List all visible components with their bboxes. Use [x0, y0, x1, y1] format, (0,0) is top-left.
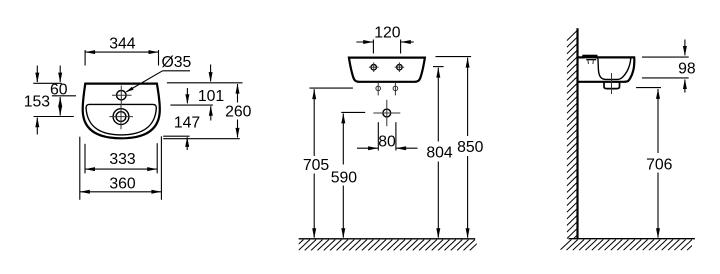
svg-text:153: 153 — [24, 94, 51, 111]
svg-text:344: 344 — [109, 35, 136, 52]
svg-text:120: 120 — [374, 24, 401, 41]
svg-text:850: 850 — [457, 139, 484, 156]
svg-text:590: 590 — [331, 170, 358, 187]
svg-text:98: 98 — [678, 61, 696, 78]
svg-text:101: 101 — [198, 88, 225, 105]
svg-text:80: 80 — [378, 134, 396, 151]
svg-text:706: 706 — [646, 157, 673, 174]
svg-text:360: 360 — [109, 176, 136, 193]
svg-text:333: 333 — [109, 151, 136, 168]
svg-text:705: 705 — [303, 157, 330, 174]
svg-text:Ø35: Ø35 — [161, 54, 191, 71]
svg-text:147: 147 — [174, 115, 200, 132]
svg-text:60: 60 — [50, 82, 68, 99]
svg-text:804: 804 — [426, 145, 453, 162]
svg-text:260: 260 — [225, 103, 252, 120]
